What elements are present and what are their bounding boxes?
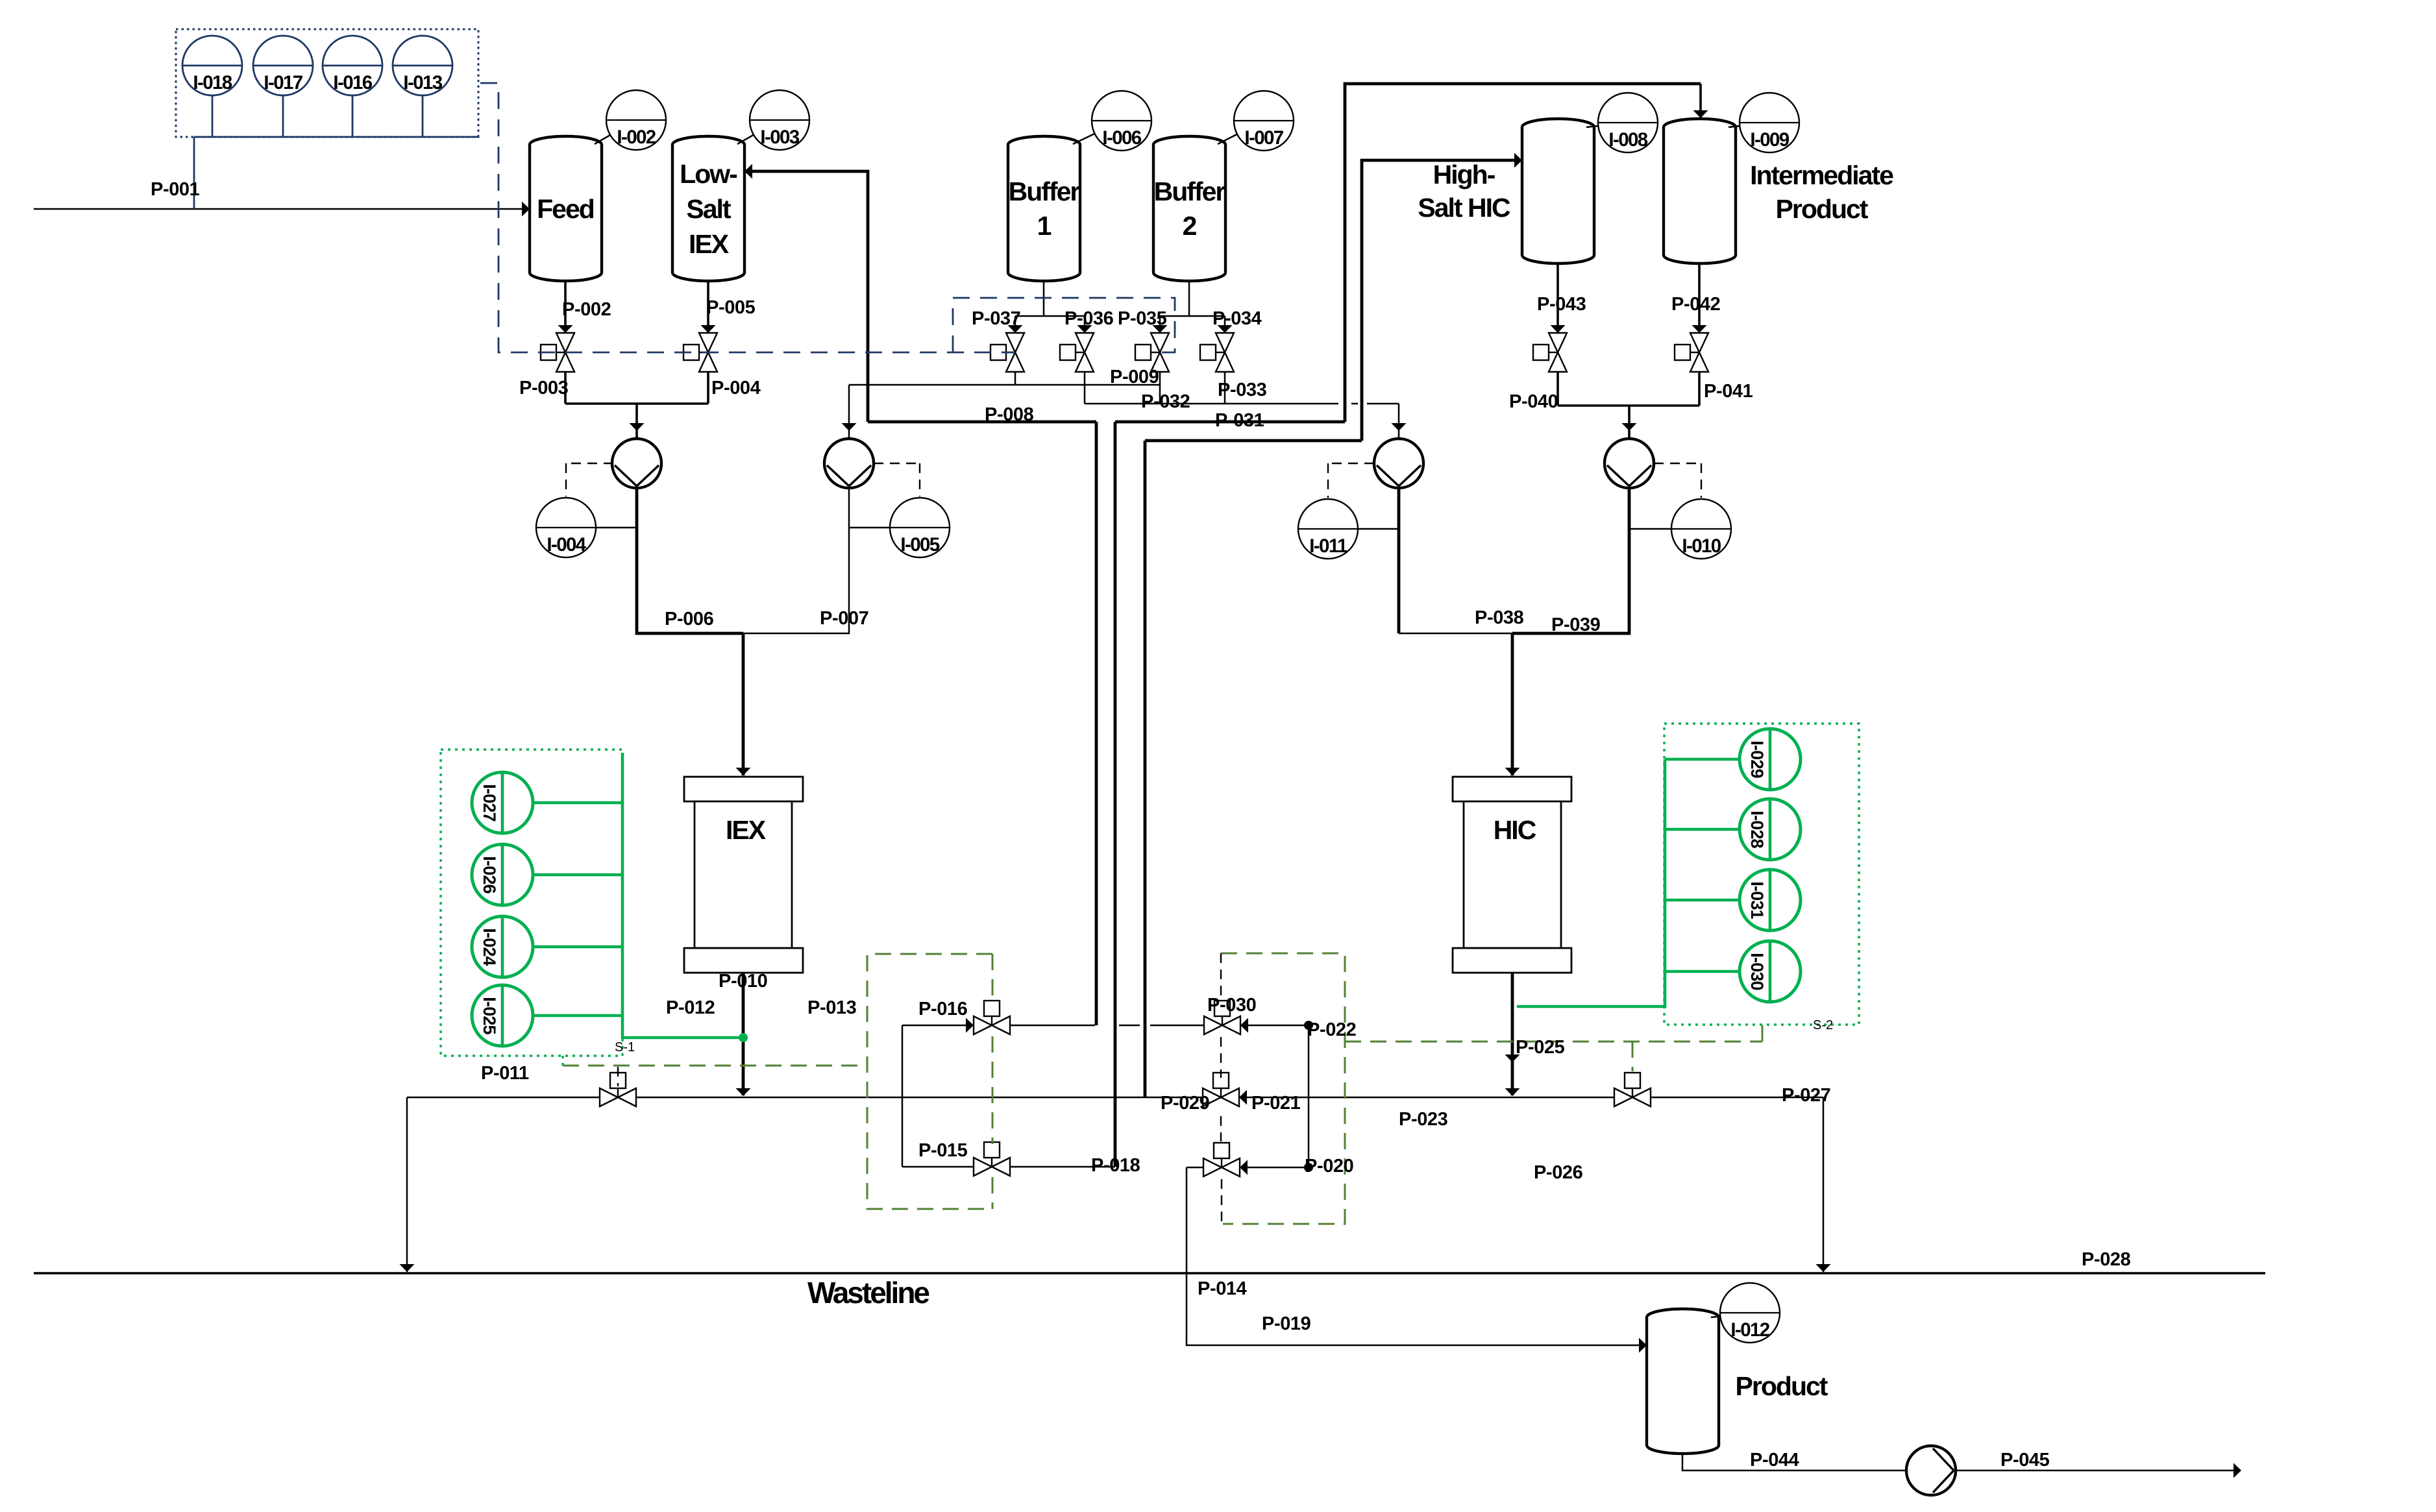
wire junction vertical	[1308, 1025, 1310, 1167]
svg-text:P-040: P-040	[1509, 391, 1558, 412]
wire pump P2 instrument dashed	[874, 463, 920, 496]
S-1 dotted jog	[561, 1056, 563, 1066]
wire P-044 product outlet	[1682, 1454, 1906, 1470]
tank Feed	[530, 136, 602, 281]
wire P-008 down leg	[1095, 422, 1098, 1025]
wire I-008 leader	[1586, 123, 1628, 127]
svg-text:P-035: P-035	[1118, 308, 1167, 329]
instrument I-016	[323, 36, 382, 95]
wire I-007 leader	[1218, 121, 1264, 144]
valve P-042/P-041	[1675, 333, 1708, 372]
svg-text:I-004: I-004	[547, 534, 586, 555]
svg-text:P-032: P-032	[1141, 391, 1190, 412]
svg-text:Feed: Feed	[537, 194, 594, 224]
wire Intermediate outlet stub P-042	[1698, 262, 1701, 333]
svg-text:P-010: P-010	[719, 971, 767, 992]
wire right manifold	[1558, 404, 1699, 407]
wire P-045 line	[1956, 1470, 2241, 1472]
S-2 dotted box	[1664, 724, 1859, 1025]
wire P-027 drop to wasteline	[1823, 1097, 1825, 1272]
svg-text:P-023: P-023	[1399, 1109, 1448, 1130]
svg-text:Wasteline: Wasteline	[807, 1276, 929, 1310]
valve P-030	[1204, 1001, 1240, 1034]
pump P4 (HIC feed)	[1605, 439, 1654, 488]
wire drop to pump P2	[848, 385, 850, 439]
wire arrow into Intermediate Product	[1699, 84, 1702, 117]
pump P2 (IEX elution)	[824, 439, 874, 488]
wire P-036 stub	[1084, 372, 1086, 404]
wire P-035 stub	[1159, 372, 1161, 404]
wire P-037 stub	[1015, 372, 1016, 385]
instrument I-011	[1298, 499, 1358, 559]
svg-text:P-016: P-016	[918, 999, 968, 1019]
svg-text:P-018: P-018	[1091, 1155, 1140, 1176]
svg-text:S-1: S-1	[615, 1040, 635, 1055]
tank Intermediate Product	[1664, 119, 1736, 263]
svg-text:P-039: P-039	[1551, 615, 1601, 635]
instrument I-029	[1740, 729, 1801, 790]
svg-text:P-033: P-033	[1218, 380, 1267, 400]
wire header arrow into P-029	[1239, 1090, 1247, 1105]
column HIC	[1453, 777, 1571, 973]
node P-012 end	[739, 1033, 748, 1042]
instrument I-017	[253, 36, 313, 95]
wire recycle riser to High-Salt HIC	[1362, 160, 1517, 441]
wire I-012 leader	[1711, 1313, 1750, 1317]
S-1 dotted box	[441, 750, 622, 1056]
svg-text:P-045: P-045	[2000, 1450, 2050, 1470]
svg-text:S-2: S-2	[1813, 1018, 1833, 1032]
svg-text:P-008: P-008	[985, 404, 1034, 425]
svg-text:P-044: P-044	[1750, 1450, 1799, 1470]
valve P-036	[1060, 333, 1094, 372]
instrument I-013	[393, 36, 452, 95]
instrument I-010	[1671, 499, 1731, 559]
svg-text:Buffer: Buffer	[1154, 177, 1226, 206]
S-2 collector line	[1517, 759, 1740, 1006]
instrument I-005	[890, 498, 950, 557]
svg-text:P-013: P-013	[807, 997, 857, 1018]
svg-text:P-022: P-022	[1307, 1019, 1356, 1040]
wire I-002 leader	[595, 120, 636, 144]
svg-text:I-028: I-028	[1747, 811, 1767, 848]
wire P-003 stub below valve	[564, 372, 567, 404]
wire P-025 HIC outlet	[1511, 973, 1514, 1095]
wire waste header left	[407, 1097, 600, 1099]
svg-text:I-026: I-026	[480, 856, 499, 894]
wire I-004 tap	[596, 527, 637, 529]
wire P-030 arrow segment	[1240, 1018, 1248, 1033]
svg-text:I-010: I-010	[1682, 535, 1721, 557]
svg-text:P-030: P-030	[1207, 995, 1256, 1016]
svg-text:I-006: I-006	[1102, 127, 1141, 149]
svg-text:P-034: P-034	[1212, 308, 1262, 329]
svg-text:P-015: P-015	[918, 1140, 968, 1161]
valve P-011	[600, 1073, 636, 1106]
svg-text:I-005: I-005	[900, 534, 939, 555]
svg-text:Product: Product	[1776, 194, 1869, 224]
wire P-016 P-015 branch vertical	[902, 1025, 904, 1167]
wire pump P1 outlet P-006	[637, 488, 743, 633]
svg-text:P-020: P-020	[1305, 1156, 1353, 1177]
svg-text:I-029: I-029	[1747, 740, 1767, 778]
svg-text:P-042: P-042	[1671, 294, 1720, 315]
svg-text:I-012: I-012	[1730, 1319, 1769, 1341]
instrument I-007	[1234, 91, 1294, 151]
wire P-026 header segment	[1651, 1097, 1823, 1099]
instrument I-028	[1740, 799, 1801, 860]
svg-text:I-027: I-027	[480, 784, 499, 822]
wire P-016 line	[902, 1025, 966, 1027]
navy instrument box	[176, 29, 478, 137]
svg-text:Salt HIC: Salt HIC	[1418, 193, 1510, 223]
valve P-005/P-004	[683, 333, 717, 372]
wire P-008 return to Low-Salt IEX	[746, 171, 868, 422]
wire I-006 leader	[1073, 121, 1122, 144]
svg-text:P-043: P-043	[1537, 294, 1586, 315]
svg-text:P-001: P-001	[151, 179, 200, 200]
wire P-032 line	[1085, 404, 1399, 439]
svg-text:P-027: P-027	[1782, 1085, 1830, 1106]
svg-text:P-012: P-012	[666, 997, 715, 1018]
svg-text:P-031: P-031	[1215, 410, 1264, 431]
svg-text:Buffer: Buffer	[1009, 177, 1081, 206]
tank Buffer 1	[1008, 136, 1080, 281]
wire pump P2 outlet P-007	[743, 488, 849, 633]
instrument I-004	[536, 498, 596, 557]
svg-text:I-011: I-011	[1309, 535, 1347, 557]
wire P-004 stub below valve	[707, 372, 709, 404]
wire pump P4 outlet P-039	[1512, 488, 1629, 633]
navy dashed control line	[480, 83, 1015, 352]
instrument I-006	[1092, 91, 1151, 151]
valve P-037	[990, 333, 1024, 372]
instrument I-003	[750, 90, 809, 150]
wire P-034 stub	[1224, 372, 1226, 404]
wire High-Salt outlet stub P-043	[1556, 262, 1559, 333]
svg-text:Product: Product	[1736, 1371, 1828, 1401]
instrument I-025	[472, 985, 533, 1046]
svg-text:P-029: P-029	[1161, 1093, 1210, 1114]
wire I-009 leader	[1729, 123, 1769, 127]
svg-text:P-041: P-041	[1704, 381, 1753, 402]
svg-text:P-011: P-011	[481, 1063, 529, 1084]
wire P-009 line	[849, 384, 1160, 386]
wire recycle left leg	[1144, 441, 1147, 1097]
svg-text:Intermediate: Intermediate	[1750, 160, 1893, 190]
wire Feed outlet stub P-002	[564, 281, 567, 333]
svg-text:I-017: I-017	[264, 72, 302, 93]
svg-text:High-: High-	[1433, 160, 1495, 189]
wire P-014 P-019 product feed	[1187, 1167, 1646, 1345]
valve P-035	[1135, 333, 1169, 372]
wire P-031 riser	[1345, 84, 1701, 422]
instrument I-024	[472, 916, 533, 977]
svg-text:I-024: I-024	[480, 928, 499, 966]
column IEX	[684, 777, 803, 973]
valve P-020	[1203, 1143, 1240, 1177]
green dashed box around P-016/P-015	[867, 954, 992, 1209]
navy instrument drop lines	[194, 95, 478, 209]
svg-text:I-016: I-016	[333, 72, 372, 93]
svg-text:I-008: I-008	[1608, 129, 1647, 151]
svg-text:P-026: P-026	[1534, 1162, 1583, 1183]
wire drop to pump P4	[1628, 406, 1630, 439]
wire feed manifold	[565, 402, 708, 405]
wire P-013 dashed	[563, 1065, 867, 1067]
svg-text:I-013: I-013	[403, 72, 442, 93]
instrument I-031	[1740, 870, 1801, 931]
pump P1 (IEX feed)	[612, 439, 661, 488]
wire P-031 horizontal	[1115, 421, 1345, 424]
svg-text:Low-: Low-	[680, 159, 737, 189]
svg-text:P-037: P-037	[972, 308, 1020, 329]
pump P3 (HIC elution)	[1374, 439, 1423, 488]
valve P-029	[1203, 1073, 1239, 1106]
svg-text:1: 1	[1037, 211, 1052, 241]
instrument I-030	[1740, 941, 1801, 1002]
svg-text:HIC: HIC	[1494, 815, 1536, 845]
wire P-001 feed inlet	[34, 208, 530, 210]
svg-text:I-025: I-025	[480, 997, 499, 1034]
wire HIC feed drop	[1511, 633, 1514, 775]
wire I-011 tap	[1358, 528, 1399, 530]
svg-text:I-009: I-009	[1750, 129, 1789, 151]
svg-text:2: 2	[1183, 211, 1197, 241]
instrument I-002	[606, 90, 666, 150]
wire I-010 tap	[1629, 528, 1671, 530]
wire P-041 stub	[1698, 372, 1701, 406]
wire Wasteline	[34, 1272, 2265, 1274]
green dashed box around P-030/P-029/P-020	[1221, 953, 1345, 1224]
wire I-005 tap	[849, 527, 890, 529]
wire pump P1 instrument dashed	[566, 463, 613, 496]
instrument I-009	[1740, 93, 1799, 152]
valve P-043/P-040	[1533, 333, 1567, 372]
tank High-Salt HIC	[1522, 119, 1594, 263]
wire I-003 leader	[737, 120, 780, 144]
wire pump P4 instrument dashed	[1654, 463, 1701, 498]
svg-text:P-036: P-036	[1064, 308, 1114, 329]
svg-text:P-002: P-002	[562, 299, 611, 320]
wire P-040 stub	[1556, 372, 1559, 406]
svg-text:I-018: I-018	[193, 72, 232, 93]
S-1 collector line P-012	[533, 753, 743, 1038]
wire P-020 line	[1187, 1167, 1203, 1169]
svg-text:I-030: I-030	[1747, 953, 1767, 990]
tank Low-Salt IEX	[672, 136, 744, 281]
navy dashed bridge to P-035	[953, 298, 1175, 352]
svg-text:P-006: P-006	[665, 609, 714, 629]
svg-text:I-003: I-003	[760, 127, 799, 148]
wire waste header mid	[636, 1097, 1203, 1099]
svg-text:P-004: P-004	[711, 378, 761, 398]
node P-020 junction	[1304, 1163, 1313, 1172]
wire drop to pump P1	[635, 404, 638, 439]
wire recycle horizontal P-021	[1145, 439, 1362, 443]
svg-text:P-007: P-007	[820, 608, 868, 629]
black dashed valve chain	[1221, 953, 1222, 1224]
wire IEX feed drop	[742, 633, 745, 775]
instrument I-027	[472, 772, 533, 833]
tank Buffer 2	[1153, 136, 1225, 281]
svg-text:IEX: IEX	[689, 229, 729, 259]
valve P-026	[1614, 1073, 1651, 1106]
valve P-015	[974, 1142, 1010, 1176]
svg-text:P-014: P-014	[1198, 1278, 1247, 1299]
instrument I-026	[472, 844, 533, 905]
svg-text:P-025: P-025	[1516, 1037, 1565, 1058]
svg-text:P-009: P-009	[1110, 367, 1159, 387]
wire arrow into High-Salt HIC	[1514, 153, 1522, 168]
valve P-034	[1200, 333, 1234, 372]
svg-text:P-003: P-003	[519, 378, 569, 398]
instrument I-018	[182, 36, 242, 95]
pump P5 (product)	[1906, 1446, 1956, 1495]
wire pump P3 instrument dashed	[1328, 463, 1374, 498]
valve P-002/P-003	[541, 333, 574, 372]
wire waste drop left	[406, 1097, 408, 1272]
wire P-015 line	[902, 1166, 1115, 1168]
svg-text:P-021: P-021	[1251, 1093, 1301, 1114]
svg-text:IEX: IEX	[726, 815, 766, 845]
svg-text:Salt: Salt	[686, 194, 732, 224]
svg-text:P-028: P-028	[2082, 1249, 2131, 1270]
instrument I-008	[1598, 93, 1658, 152]
valve P-016	[974, 1001, 1010, 1034]
svg-text:P-005: P-005	[706, 297, 756, 318]
wire Buffer1 outlet split	[1015, 281, 1085, 333]
tank Product	[1647, 1309, 1719, 1454]
wire P-010 IEX outlet	[742, 973, 745, 1095]
node P-022 junction	[1304, 1021, 1313, 1030]
wire P-008 horizontal	[868, 421, 1096, 424]
wire P-023 header right	[1309, 1097, 1614, 1099]
svg-text:I-002: I-002	[617, 127, 656, 148]
wire Buffer2 outlet split	[1160, 281, 1225, 333]
wire Low-Salt outlet stub P-005	[707, 281, 709, 333]
wire pump P3 outlet P-038	[1397, 488, 1401, 633]
svg-text:P-019: P-019	[1262, 1313, 1311, 1334]
svg-text:P-038: P-038	[1475, 607, 1524, 628]
wire P-031 left leg P-018	[1114, 422, 1117, 1167]
wire S-2 dashed link	[1345, 1025, 1762, 1071]
instrument I-012	[1720, 1283, 1780, 1343]
svg-text:I-031: I-031	[1747, 881, 1767, 919]
svg-text:I-007: I-007	[1244, 127, 1283, 149]
